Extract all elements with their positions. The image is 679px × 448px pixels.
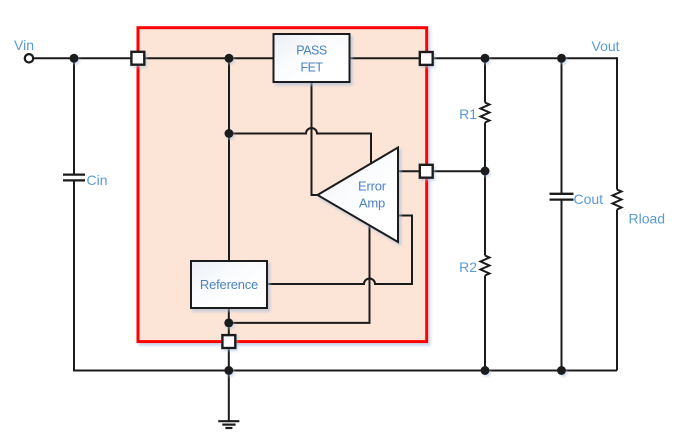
wire: bottom ground rail bbox=[73, 370, 617, 372]
block Reference bbox=[191, 261, 267, 308]
wire: pin IN to PASS FET input bbox=[144, 57, 274, 59]
wire: ground rail to earth ground bbox=[228, 371, 230, 422]
junction: error amp supply tap bbox=[225, 129, 234, 138]
junction: R1 top bbox=[481, 54, 490, 63]
wire: Vin internal branch down to Reference bbox=[228, 58, 230, 261]
wire: pin GND to ground rail bbox=[228, 348, 230, 371]
svg-text:Error: Error bbox=[358, 179, 387, 194]
svg-text:Vout: Vout bbox=[592, 38, 620, 54]
wire: PASS FET gate from error amp output bbox=[312, 82, 318, 195]
svg-text:R1: R1 bbox=[459, 106, 477, 122]
svg-text:Cout: Cout bbox=[574, 191, 604, 207]
block PASS FET bbox=[274, 34, 350, 82]
wire: R1 to divider node bbox=[484, 123, 486, 172]
junction: Cout top bbox=[557, 54, 566, 63]
svg-text:Rload: Rload bbox=[629, 211, 666, 227]
pin GND bbox=[222, 335, 235, 348]
wire: Reference output to error amp input with crossover hump bbox=[267, 216, 412, 285]
node Vin terminal bbox=[25, 54, 33, 62]
wire: Cout bottom plate to ground rail bbox=[561, 200, 563, 371]
wire: Vout node down to Cout top plate bbox=[561, 58, 563, 194]
junction: internal Vin branch bbox=[225, 54, 234, 63]
wire: pin OUT to Vout corner bbox=[433, 57, 618, 59]
junction: Cout bottom bbox=[557, 366, 566, 375]
junction: R2 bottom bbox=[481, 366, 490, 375]
resistor R2 bbox=[481, 256, 490, 276]
wire: R2 to ground rail bbox=[484, 276, 486, 371]
capacitor Cin bbox=[63, 175, 85, 181]
svg-text:R2: R2 bbox=[459, 259, 477, 275]
junction: ground rail at GND pin bbox=[224, 366, 233, 375]
wire: pin FB to divider node bbox=[433, 170, 486, 172]
op-amp Error Amp bbox=[318, 148, 399, 243]
junction: Reference ground node bbox=[224, 318, 233, 327]
svg-text:Cin: Cin bbox=[87, 172, 108, 188]
wire: Rload to ground rail bbox=[616, 210, 618, 371]
wire: Vout node down to R1 bbox=[484, 58, 486, 102]
wire: Reference to bottom pin GND bbox=[228, 308, 230, 336]
svg-text:FET: FET bbox=[300, 60, 323, 74]
resistor R1 bbox=[481, 103, 490, 123]
wire: PASS FET output to pin OUT bbox=[350, 57, 421, 59]
junction: feedback divider node bbox=[481, 167, 490, 176]
svg-text:Amp: Amp bbox=[359, 196, 385, 211]
capacitor Cout bbox=[550, 194, 574, 200]
IC boundary red box bbox=[138, 28, 427, 342]
pin IN bbox=[131, 52, 144, 65]
wire: error amp feedback input to pin FB bbox=[398, 170, 421, 172]
wire: Vin terminal to pin IN bbox=[33, 57, 132, 59]
resistor Rload bbox=[613, 190, 622, 210]
wire: error amp ground to Reference ground node bbox=[229, 225, 370, 323]
wire: Vout corner down to Rload bbox=[616, 57, 618, 189]
svg-text:Reference: Reference bbox=[200, 277, 258, 292]
svg-text:Vin: Vin bbox=[14, 37, 34, 53]
wire: divider node down to R2 bbox=[484, 171, 486, 256]
wire: branch to error amp supply with crossover hump bbox=[229, 128, 371, 164]
ground bbox=[218, 421, 239, 428]
svg-text:PASS: PASS bbox=[296, 44, 327, 58]
junction: Cin tap bbox=[70, 54, 79, 63]
pin FB bbox=[420, 165, 433, 178]
wire: Cin bottom plate down to ground rail bbox=[73, 180, 75, 371]
wire: left branch down to Cin top plate bbox=[73, 58, 75, 174]
pin OUT bbox=[420, 52, 433, 65]
